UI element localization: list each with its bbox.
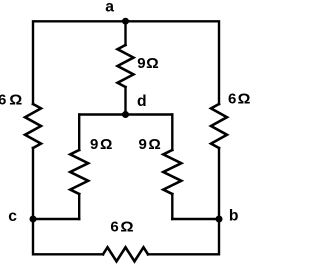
wire d-branch right vertical down to inner-right resistor [171,115,173,151]
node a junction dot [122,18,129,25]
wire inner-right resistor to b-wire [171,194,173,219]
svg-text:c: c [8,208,17,225]
wire top: left rail top, top wire, right rail top [33,21,219,104]
svg-text:Ω: Ω [100,136,112,153]
svg-text:9: 9 [137,55,145,72]
wire a to top resistor [124,21,126,45]
wire b to inner-right branch [172,218,219,220]
resistor R-top 9 ohm (a to d) [118,45,134,87]
svg-text:9: 9 [90,136,98,153]
wire bottom-right: right rail below resistor down to bottom wire [148,148,219,254]
svg-text:9: 9 [139,136,147,153]
svg-text:Ω: Ω [238,90,251,107]
svg-text:Ω: Ω [120,219,133,236]
svg-text:Ω: Ω [9,92,22,109]
node d junction dot [122,111,129,118]
wire inner-left resistor to c-wire [78,194,80,219]
svg-text:b: b [229,208,239,225]
svg-text:Ω: Ω [146,55,159,72]
svg-text:6: 6 [228,90,236,107]
node c junction dot [30,216,37,223]
wire top resistor to d [124,87,126,115]
svg-text:a: a [105,0,114,16]
wire bottom-left: left rail below resistor down to bottom wire [33,148,103,254]
svg-text:6: 6 [0,92,6,109]
svg-text:6: 6 [110,219,118,236]
wire d-branch horizontal [79,113,172,115]
wire d-branch left vertical down to inner-left resistor [78,115,80,151]
node b junction dot [216,216,223,223]
resistor R-left 6 ohm (left rail) [25,104,41,148]
resistor R-inner-left 9 ohm [70,150,88,194]
svg-text:d: d [137,93,147,110]
resistor R-bottom 6 ohm (bottom wire) [103,247,148,261]
svg-text:Ω: Ω [148,136,160,153]
resistor R-inner-right 9 ohm [163,150,181,194]
resistor R-right 6 ohm (right rail) [211,104,227,148]
wire c to inner-left branch [33,218,79,220]
